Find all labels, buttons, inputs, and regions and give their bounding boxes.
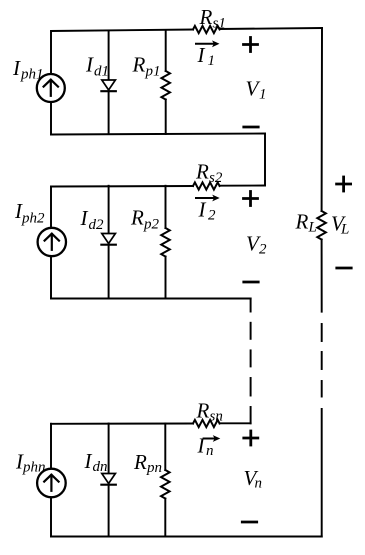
label Id2 (80, 206, 105, 233)
label Rp1 (132, 53, 161, 80)
wire dashed connector block2 to blockn solid stub top (250, 299, 252, 312)
wire blockn bottom (51, 536, 322, 538)
svg-text:I: I (197, 434, 206, 458)
svg-text:2: 2 (208, 208, 216, 224)
wire right rail middle (321, 240, 323, 312)
svg-text:1: 1 (208, 53, 216, 69)
minus sign V2 (244, 281, 258, 284)
label Rpn (133, 450, 162, 476)
wire blockn Rp column bottom (164, 499, 166, 537)
label Iph2 (14, 199, 45, 227)
wire block2 Rp column bottom (165, 257, 167, 299)
plus sign V1 (244, 38, 258, 52)
wire block1 diode column bottom (108, 91, 110, 134)
resistor Rs2 (193, 182, 220, 189)
plus sign V2 (244, 192, 258, 206)
wire blockn top left segment (51, 423, 193, 425)
svg-text:L: L (308, 220, 317, 236)
wire block1 Rp column top (165, 30, 167, 71)
wire blockn top right segment (220, 422, 251, 424)
svg-text:R: R (133, 450, 147, 474)
wire block2 diode column top (108, 186, 110, 234)
label Rs1 (199, 5, 226, 32)
svg-text:R: R (199, 5, 213, 29)
svg-text:s2: s2 (209, 170, 223, 186)
svg-text:I: I (198, 198, 207, 222)
current arrow In (204, 435, 221, 442)
resistor Rp2 (161, 228, 170, 257)
wire block2 left rail top (50, 187, 52, 228)
wire dashed connector solid stub bottom (250, 407, 252, 423)
plus sign Vn (244, 431, 258, 445)
label In (197, 434, 214, 460)
label Rsn (196, 399, 223, 425)
label Idn (84, 449, 108, 475)
svg-text:n: n (206, 443, 214, 459)
wire blockn left rail top (50, 424, 52, 469)
label V1 (246, 77, 267, 103)
label RL (295, 210, 317, 236)
wire block2 diode column bottom (108, 245, 110, 299)
label Rp2 (130, 206, 160, 233)
wire block1 diode column top (108, 31, 110, 80)
wire block2 top left segment (51, 185, 193, 188)
wire blockn left rail bottom (50, 497, 52, 536)
label Id1 (85, 53, 109, 80)
current source Iph2 (38, 228, 66, 256)
wire dashed connector dashes (250, 323, 252, 396)
current source Iph1 (37, 74, 65, 102)
svg-text:R: R (196, 399, 210, 423)
wire block2 Rp column top (165, 186, 167, 228)
wire block1 left rail bottom (50, 102, 52, 135)
svg-text:dn: dn (93, 459, 108, 475)
svg-text:L: L (340, 222, 349, 238)
svg-text:I: I (84, 449, 93, 473)
wire block2 top right segment (220, 185, 265, 187)
svg-text:I: I (85, 53, 94, 77)
svg-text:n: n (255, 476, 263, 492)
label Iph1 (12, 56, 44, 83)
svg-text:p1: p1 (145, 64, 161, 80)
wire right rail top (321, 28, 323, 211)
current arrow I2 (196, 195, 220, 202)
label V2 (246, 232, 267, 258)
svg-text:I: I (12, 56, 21, 80)
svg-text:phn: phn (22, 460, 46, 476)
wire blockn Rp column top (164, 424, 166, 471)
svg-text:sn: sn (210, 409, 223, 425)
svg-text:1: 1 (259, 87, 267, 103)
label I2 (198, 198, 217, 224)
label Iphn (15, 450, 46, 476)
wire blockn diode column bottom (108, 485, 110, 537)
minus sign Vn (242, 521, 256, 524)
diode Id2 (101, 234, 115, 245)
resistor RL (317, 211, 326, 240)
label Vn (244, 466, 263, 492)
svg-text:R: R (130, 206, 144, 230)
svg-text:R: R (195, 160, 209, 184)
wire right rail bottom (321, 409, 323, 537)
wire block1 top left segment (51, 30, 193, 75)
svg-text:d1: d1 (94, 64, 109, 80)
wire block2 bottom (51, 298, 251, 300)
resistor Rsn (193, 420, 220, 427)
wire block2 left rail bottom (50, 256, 52, 298)
svg-text:ph1: ph1 (20, 67, 44, 83)
minus sign V1 (244, 126, 258, 129)
resistor Rs1 (193, 26, 220, 33)
svg-text:R: R (295, 210, 309, 234)
wire block1 top right segment (220, 28, 322, 29)
svg-text:R: R (132, 53, 146, 77)
resistor Rp1 (161, 71, 170, 100)
wire right rail dashes (321, 324, 323, 397)
label VL (331, 212, 349, 238)
wire block1 Rp column bottom (165, 100, 167, 135)
plus sign VL (337, 177, 351, 191)
current source Iphn (37, 469, 66, 498)
svg-text:pn: pn (146, 460, 162, 476)
wire block1 bottom (51, 134, 265, 135)
svg-text:d2: d2 (89, 217, 105, 233)
minus sign VL (337, 267, 351, 270)
svg-text:I: I (197, 43, 206, 67)
wire step connector block1 to block2 (264, 134, 266, 186)
diode Id1 (101, 80, 115, 91)
label I1 (197, 43, 216, 69)
svg-text:p2: p2 (143, 217, 160, 233)
svg-text:2: 2 (259, 242, 267, 258)
svg-text:s1: s1 (213, 16, 226, 32)
current arrow I1 (196, 40, 220, 47)
svg-text:ph2: ph2 (21, 211, 45, 227)
label Rs2 (195, 160, 223, 187)
diode Idn (101, 474, 115, 485)
svg-text:I: I (80, 206, 89, 230)
resistor Rpn (161, 470, 170, 499)
wire blockn diode column top (108, 424, 110, 474)
